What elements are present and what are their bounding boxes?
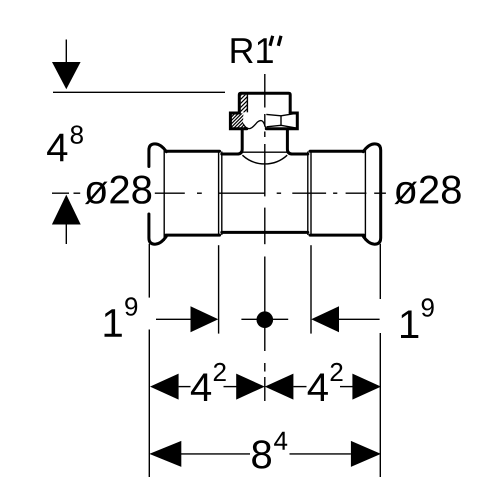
label R1: "R1"	[232, 38, 273, 63]
label diameter 28 left: "ø28"	[85, 176, 151, 205]
right socket bottom line	[310, 234, 364, 237]
horizontal centerline	[52, 192, 386, 194]
extension line at thread top	[53, 91, 225, 93]
wavy break line	[243, 121, 266, 129]
tee fitting body outline	[149, 93, 381, 244]
right socket top line	[310, 150, 364, 153]
label 1.9 right superscript: "9"	[422, 298, 434, 317]
label 1.9 left main digit: "1"	[105, 309, 122, 337]
dimension 1.9 left	[156, 306, 218, 332]
dimension 4.8 upper arrow	[52, 40, 225, 93]
dimension 8.4 bottom	[149, 441, 381, 467]
branch thread outline	[239, 93, 290, 113]
label 4.2 left main digit: "4"	[191, 374, 211, 402]
label 8.4 superscript: "4"	[274, 432, 287, 450]
thin detail lines of fitting	[164, 95, 365, 241]
label 4.2 right main digit: "4"	[308, 374, 328, 402]
thread hatching	[228, 84, 252, 151]
body line behind branch	[242, 151, 287, 153]
branch tube right edge with fillet	[287, 129, 292, 154]
center dot node	[257, 311, 274, 328]
label 1.9 right main digit: "1"	[401, 311, 418, 339]
left press socket bead (lower part)	[149, 214, 166, 244]
label 8.4 main digit: "8"	[252, 440, 271, 468]
right socket step lines	[307, 152, 309, 235]
label 4.2 left superscript: "2"	[214, 363, 226, 381]
dimension 1.9 right	[311, 306, 379, 332]
hex top chamfer line	[266, 113, 295, 115]
body bottom line	[222, 231, 308, 234]
label 4.8 superscript: "8"	[71, 125, 83, 143]
left socket step lines	[218, 152, 220, 235]
left bead junction line	[163, 147, 165, 241]
branch hex flange outline	[230, 113, 246, 129]
extension lines below fitting	[149, 244, 380, 477]
dimension 4.2 left	[150, 374, 265, 400]
branch tube left edge with fillet	[238, 129, 243, 154]
label diameter 28 right: "ø28"	[394, 176, 460, 205]
vertical centerline	[264, 74, 266, 401]
inner (socket step) extension lines	[218, 245, 220, 333]
hex bottom chamfer line	[267, 125, 296, 128]
hex facet line	[280, 116, 282, 126]
left socket top line	[166, 150, 220, 153]
label 4.8 main digit: "4"	[47, 134, 67, 162]
left socket bottom line	[166, 234, 220, 237]
right bead junction line	[364, 147, 366, 241]
thread inner line	[246, 95, 248, 113]
label R1"	[270, 36, 281, 46]
dimension 4.8 lower arrow	[52, 195, 81, 244]
left press socket bead (upper part)	[149, 144, 166, 167]
body top line left of branch	[222, 153, 238, 156]
dimension 4.2 right	[265, 374, 381, 400]
outer extension lines	[148, 244, 150, 298]
label 4.2 right superscript: "2"	[331, 363, 343, 381]
right press socket bead	[363, 144, 380, 244]
saddle arc where branch meets body	[242, 155, 287, 164]
label 1.9 left superscript: "9"	[125, 297, 137, 316]
body top line right of branch	[292, 153, 308, 156]
